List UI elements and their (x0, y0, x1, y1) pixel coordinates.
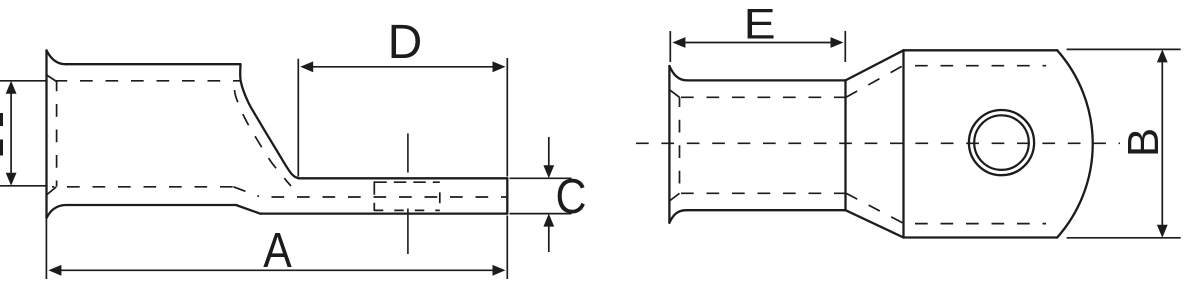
extension line top (0, 80, 47, 82)
dimension line lower (548, 225, 550, 252)
inner barrel bottom line (681, 192, 846, 194)
svg-text:B: B (1119, 128, 1168, 157)
barrel top edge (66, 63, 241, 65)
hole centerline (vertical) (407, 133, 409, 254)
arrowhead A right (493, 265, 506, 276)
palm rounded end arc (1057, 50, 1093, 237)
lug body outline (right view) (669, 50, 1092, 237)
svg-text:C: C (556, 170, 587, 224)
extension line right (844, 31, 846, 62)
svg-text:D: D (388, 16, 423, 69)
extension line top (1067, 48, 1181, 50)
palm end edge (506, 178, 508, 213)
inner flare bottom diagonal (669, 193, 679, 201)
dimension line (59, 269, 495, 271)
dimension line (683, 42, 833, 44)
hidden (dashed) inner lines of left view (46, 75, 506, 197)
inner mouth depth line (56, 82, 58, 187)
top flare curve (47, 50, 67, 64)
extension line right (506, 216, 508, 280)
arrowhead A left (48, 265, 61, 276)
bottom flare curve (669, 210, 686, 223)
arrowhead E left (672, 37, 685, 48)
dimension line upper (548, 137, 550, 167)
hole left wall (373, 181, 375, 211)
barrel end edge (844, 80, 846, 210)
hole top edge (374, 181, 440, 183)
top flare curve (669, 66, 687, 80)
extension line left (669, 31, 671, 62)
horizontal centerline (636, 142, 1120, 144)
arrowhead E right (831, 37, 844, 48)
dimension B (palm width) (1067, 49, 1181, 237)
palm top edge (299, 177, 508, 179)
mouth edge (45, 50, 47, 218)
barrel bottom edge (66, 204, 236, 206)
dimension line (1161, 60, 1163, 227)
arrowhead down (6, 173, 17, 186)
dimension E (barrel length) (670, 31, 845, 62)
inner flare top diagonal (669, 90, 679, 98)
arrowhead C down (543, 165, 554, 178)
bottom transition slope (236, 205, 260, 214)
inner bore bottom line (52, 186, 234, 188)
inner transition diagonal bottom (846, 193, 904, 223)
dimension: bore diameter (left edge, letter cut off) (0, 81, 47, 186)
palm inner bottom line (904, 223, 1047, 225)
hole bottom edge (374, 209, 440, 211)
mouth edge (668, 66, 670, 223)
hole inner circle (974, 115, 1029, 170)
palm left edge (902, 50, 904, 237)
dimension line (310, 66, 495, 68)
dimension C (palm thickness) (510, 137, 572, 252)
barrel bottom edge (686, 209, 846, 211)
svg-text:E: E (744, 1, 776, 49)
arrowhead D left (300, 61, 313, 72)
hole right wall (439, 192, 441, 203)
palm bottom edge (904, 236, 1058, 238)
dimension D (palm length) (298, 58, 507, 177)
extension line top (510, 177, 572, 179)
arrowhead C up (543, 214, 554, 227)
barrel top edge (687, 79, 846, 81)
extension line bottom (1067, 237, 1181, 239)
inner transition S-curve (235, 90, 292, 186)
inner mouth depth line (679, 97, 681, 193)
arrowhead up (6, 81, 17, 94)
extension line bottom (510, 213, 572, 215)
palm seam line (259, 196, 506, 198)
hidden (dashed) inner lines of right view (669, 66, 1046, 224)
bottom transition diagonal (846, 210, 904, 237)
palm inner top line (904, 65, 1047, 67)
inner transition diagonal top (846, 66, 903, 98)
inner flare bottom diagonal (46, 187, 56, 195)
arrowhead B down (1157, 225, 1168, 238)
lug body outline (barrel, flared mouth, transition, palm) (47, 50, 508, 218)
arrowhead B up (1157, 49, 1168, 62)
top transition diagonal (846, 50, 904, 80)
arrowhead D right (493, 61, 506, 72)
inner slope to palm seam (234, 187, 260, 197)
dimension A (overall length) (46, 216, 507, 280)
inner bore top line (55, 80, 241, 82)
extension line bottom (0, 185, 47, 187)
extension line right (506, 58, 508, 177)
extension line left (297, 59, 299, 177)
cut-off rotated letter fragments (0, 113, 3, 126)
svg-text:A: A (263, 224, 292, 278)
inner barrel top line (681, 96, 846, 98)
hole outer circle (969, 110, 1034, 175)
palm top edge (904, 49, 1058, 51)
hole hidden outline (dashed rectangle) (374, 181, 440, 211)
palm bottom edge (260, 212, 507, 214)
inner flare top diagonal (46, 75, 56, 82)
transition S-curve (top) (240, 64, 298, 178)
extension line left (45, 219, 47, 279)
dimension line (10, 90, 12, 177)
bottom flare curve (47, 205, 67, 218)
